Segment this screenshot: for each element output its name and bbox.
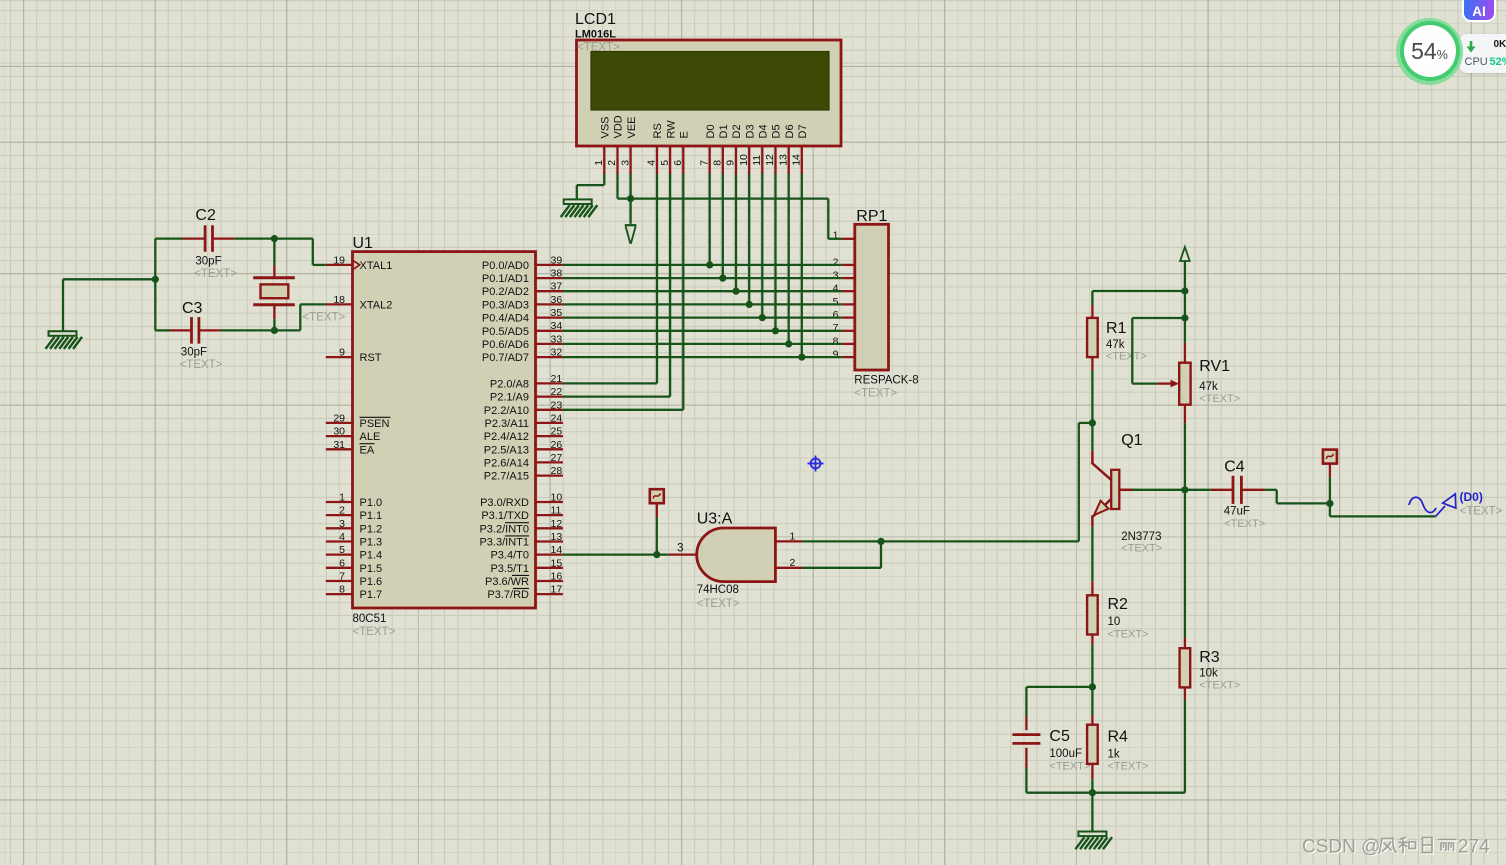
wire power to R1 bbox=[1092, 291, 1185, 305]
svg-text:10: 10 bbox=[1108, 616, 1121, 628]
label R2 bbox=[1108, 596, 1129, 613]
wire LCD D3 down bbox=[748, 174, 750, 304]
wire base bbox=[1133, 489, 1185, 491]
svg-text:R3: R3 bbox=[1199, 649, 1220, 666]
transistor Q1 bbox=[1092, 451, 1133, 527]
LCD display LCD1 body bbox=[577, 40, 842, 146]
svg-text:P1.1: P1.1 bbox=[360, 510, 383, 522]
svg-text:R1: R1 bbox=[1106, 320, 1127, 337]
U1 XTAL1 clock marker bbox=[354, 261, 360, 269]
svg-text:22: 22 bbox=[551, 386, 563, 398]
label R4 bbox=[1108, 729, 1129, 746]
svg-text:C2: C2 bbox=[195, 207, 216, 224]
svg-text:<TEXT>: <TEXT> bbox=[1460, 506, 1503, 518]
label 74HC08 bbox=[697, 584, 739, 596]
svg-text:D7: D7 bbox=[797, 124, 809, 138]
C5 leads bbox=[1025, 716, 1027, 768]
capacitor C2 bbox=[205, 225, 212, 252]
wire node to C5 bbox=[1026, 687, 1092, 716]
wire C5 down bbox=[1025, 768, 1027, 793]
svg-text:<TEXT>: <TEXT> bbox=[1199, 680, 1240, 692]
U3 pin 3 stub bbox=[669, 553, 698, 555]
svg-text:1k: 1k bbox=[1108, 749, 1120, 761]
wire R3 down bbox=[1184, 700, 1186, 793]
U1 left pin stubs bbox=[326, 265, 353, 594]
junction VEE-VDD bus bbox=[627, 195, 634, 202]
wire R1 to collector bbox=[1091, 371, 1093, 423]
svg-text:D3: D3 bbox=[744, 124, 756, 138]
Q1 collector wire bbox=[1091, 423, 1093, 451]
wire U1 P0.1 to RP1 pin 3 bbox=[563, 277, 842, 279]
svg-text:P1.3: P1.3 bbox=[360, 537, 383, 549]
svg-text:4: 4 bbox=[646, 160, 658, 166]
wire C2 right bbox=[234, 237, 313, 239]
svg-text:2: 2 bbox=[606, 160, 618, 166]
CPU stats panel bbox=[1459, 34, 1506, 74]
junction base node bbox=[1181, 486, 1188, 493]
capacitor C4 bbox=[1233, 476, 1241, 504]
probe2 stub bbox=[1329, 464, 1331, 478]
wire C2 left bbox=[155, 237, 183, 239]
RP1 pin numbers bbox=[833, 229, 839, 360]
wire U1 P0.3 to RP1 pin 5 bbox=[563, 303, 842, 305]
LCD1 pin numbers 1-14 bbox=[593, 154, 803, 166]
label R2 value bbox=[1108, 616, 1121, 628]
wire LCD D4 down bbox=[761, 174, 763, 318]
svg-text:D2: D2 bbox=[731, 124, 743, 138]
label U1 TEXT bbox=[353, 626, 396, 638]
wire R4 down bbox=[1091, 779, 1093, 793]
label D0 TEXT bbox=[1460, 506, 1503, 518]
junction gate input bbox=[653, 551, 660, 558]
junction power R1 bbox=[1181, 287, 1188, 294]
svg-text:3: 3 bbox=[833, 270, 839, 282]
wire LCD D5 down bbox=[774, 174, 776, 331]
svg-text:P3.0/RXD: P3.0/RXD bbox=[480, 497, 529, 509]
svg-text:C5: C5 bbox=[1049, 728, 1070, 745]
label R1 value bbox=[1106, 339, 1125, 351]
svg-text:VEE: VEE bbox=[626, 116, 638, 138]
svg-text:P2.2/A10: P2.2/A10 bbox=[484, 405, 529, 417]
wire left vertical bbox=[154, 239, 156, 331]
svg-text:11: 11 bbox=[751, 155, 763, 166]
LCD1 screen bbox=[591, 52, 829, 111]
svg-text:16: 16 bbox=[551, 571, 563, 583]
wire U1 P0.6 to RP1 pin 8 bbox=[563, 343, 842, 345]
svg-text:RP1: RP1 bbox=[856, 208, 887, 225]
label C4 bbox=[1224, 459, 1245, 476]
label C4 value bbox=[1224, 506, 1250, 518]
wire C3 right bbox=[221, 329, 275, 331]
svg-text:<TEXT>: <TEXT> bbox=[1108, 629, 1149, 641]
svg-text:CSDN @: CSDN @ bbox=[1302, 837, 1380, 858]
crystal top lead bbox=[273, 265, 275, 276]
U1 right pin stubs bbox=[536, 265, 563, 594]
svg-text:P1.6: P1.6 bbox=[360, 576, 383, 588]
RV1 wiper arrow bbox=[1157, 380, 1179, 388]
label C2 TEXT bbox=[194, 268, 237, 280]
svg-text:R4: R4 bbox=[1108, 729, 1129, 746]
label C2 bbox=[195, 207, 216, 224]
svg-text:4: 4 bbox=[339, 531, 345, 543]
wire crystal bottom bbox=[273, 319, 275, 330]
resistor R1 bbox=[1087, 305, 1098, 371]
wire U1 P0.5 to RP1 pin 7 bbox=[563, 330, 842, 332]
junction D5 bbox=[772, 327, 779, 334]
analog probe D0 bbox=[1409, 494, 1456, 517]
svg-text:P0.4/AD4: P0.4/AD4 bbox=[482, 313, 529, 325]
svg-text:<TEXT>: <TEXT> bbox=[854, 388, 897, 400]
label R3 bbox=[1199, 649, 1220, 666]
label LM016L bbox=[575, 29, 616, 41]
capacitor C5 bbox=[1012, 735, 1040, 744]
svg-text:33: 33 bbox=[551, 333, 563, 345]
wire base node to C4 bbox=[1185, 489, 1211, 491]
svg-text:10: 10 bbox=[551, 492, 563, 504]
junction D2 bbox=[732, 288, 739, 295]
junction D7 bbox=[798, 354, 805, 361]
svg-text:100uF: 100uF bbox=[1049, 748, 1082, 760]
svg-text:P2.6/A14: P2.6/A14 bbox=[484, 457, 529, 469]
svg-text:P2.3/A11: P2.3/A11 bbox=[485, 418, 529, 430]
C3 leads bbox=[170, 329, 221, 331]
svg-text:D0: D0 bbox=[705, 124, 717, 138]
resistor pack RP1 body bbox=[855, 224, 889, 370]
svg-text:P1.7: P1.7 bbox=[360, 589, 383, 601]
svg-text:RESPACK-8: RESPACK-8 bbox=[854, 375, 918, 387]
label C3 TEXT bbox=[180, 359, 223, 371]
wire to XTAL2 bbox=[274, 304, 325, 330]
svg-text:<TEXT>: <TEXT> bbox=[194, 268, 237, 280]
svg-text:14: 14 bbox=[551, 544, 563, 556]
svg-text:8: 8 bbox=[833, 335, 839, 347]
wire LCD RS to U1 P2.0 bbox=[563, 174, 657, 383]
svg-text:P2.4/A12: P2.4/A12 bbox=[484, 431, 529, 443]
svg-text:P3.7/RD: P3.7/RD bbox=[487, 589, 529, 601]
junction emitter node bbox=[1089, 683, 1096, 690]
svg-text:11: 11 bbox=[551, 505, 562, 517]
svg-text:RS: RS bbox=[652, 123, 664, 138]
svg-text:P3.4/T0: P3.4/T0 bbox=[490, 550, 529, 562]
svg-text:5: 5 bbox=[339, 544, 345, 556]
54% gauge bbox=[1396, 18, 1463, 85]
svg-text:28: 28 bbox=[551, 465, 563, 477]
svg-text:<TEXT>: <TEXT> bbox=[577, 42, 620, 54]
wire gate out 2 bbox=[802, 541, 881, 567]
label RV1 bbox=[1199, 358, 1230, 375]
svg-text:1: 1 bbox=[790, 531, 796, 543]
U3 pin 1 stub bbox=[775, 540, 802, 542]
svg-text:R2: R2 bbox=[1108, 596, 1129, 613]
svg-text:P3.1/TXD: P3.1/TXD bbox=[481, 510, 529, 522]
svg-text:17: 17 bbox=[551, 584, 563, 596]
svg-text:12: 12 bbox=[551, 518, 563, 530]
svg-text:ALE: ALE bbox=[360, 431, 381, 443]
resistor R2 bbox=[1087, 581, 1098, 644]
svg-text:15: 15 bbox=[551, 557, 563, 569]
label LCD1 bbox=[575, 11, 616, 28]
power terminal arrow bbox=[1180, 247, 1190, 261]
MCU U1 body bbox=[353, 252, 536, 608]
svg-text:C4: C4 bbox=[1224, 459, 1245, 476]
svg-text:VSS: VSS bbox=[600, 116, 612, 138]
svg-text:14: 14 bbox=[791, 154, 803, 166]
svg-text:P2.1/A9: P2.1/A9 bbox=[490, 392, 529, 404]
svg-text:U3:A: U3:A bbox=[697, 511, 733, 528]
wire VEE bbox=[629, 174, 631, 224]
label R4 TEXT bbox=[1108, 761, 1149, 773]
label R4 value bbox=[1108, 749, 1120, 761]
svg-text:LCD1: LCD1 bbox=[575, 11, 616, 28]
wire R2 to node bbox=[1091, 645, 1093, 687]
label C3 value bbox=[181, 347, 207, 359]
svg-text:29: 29 bbox=[333, 412, 345, 424]
svg-text:10: 10 bbox=[738, 154, 750, 166]
label RP1 TEXT bbox=[854, 388, 897, 400]
U3 pin 1 number bbox=[790, 531, 796, 543]
svg-text:RST: RST bbox=[360, 352, 382, 364]
wire emitter to R2 bbox=[1091, 527, 1093, 581]
svg-text:P3.3/INT1: P3.3/INT1 bbox=[479, 537, 529, 549]
svg-text:P0.1/AD1: P0.1/AD1 bbox=[482, 273, 529, 285]
svg-text:7: 7 bbox=[339, 571, 345, 583]
label U3 TEXT bbox=[697, 598, 740, 610]
svg-text:<TEXT>: <TEXT> bbox=[1108, 761, 1149, 773]
svg-text:<TEXT>: <TEXT> bbox=[1199, 393, 1240, 405]
junction D0 bbox=[706, 261, 713, 268]
svg-text:38: 38 bbox=[551, 268, 563, 280]
wire RV1 to base node bbox=[1184, 423, 1186, 490]
junction D1 bbox=[719, 275, 726, 282]
svg-text:<TEXT>: <TEXT> bbox=[1049, 761, 1090, 773]
svg-text:30pF: 30pF bbox=[181, 347, 207, 359]
potentiometer RV1 body bbox=[1179, 363, 1190, 405]
wire VSS to ground bbox=[577, 174, 605, 199]
svg-text:35: 35 bbox=[551, 307, 563, 319]
svg-text:27: 27 bbox=[551, 452, 563, 464]
svg-text:P2.0/A8: P2.0/A8 bbox=[490, 378, 529, 390]
terminal probe2 bbox=[1323, 450, 1337, 464]
U3 pin 3 number bbox=[677, 543, 683, 555]
label RP1 bbox=[856, 208, 887, 225]
svg-text:1: 1 bbox=[339, 492, 345, 504]
svg-text:23: 23 bbox=[551, 399, 563, 411]
label C3 bbox=[182, 300, 203, 317]
svg-text:LM016L: LM016L bbox=[575, 29, 616, 41]
AND gate U3:A body bbox=[697, 528, 776, 582]
wire P3.4 to gate bbox=[563, 553, 669, 555]
svg-text:P1.5: P1.5 bbox=[360, 563, 383, 575]
U1 right pin numbers bbox=[551, 254, 563, 595]
svg-text:RW: RW bbox=[665, 120, 677, 139]
U1 right pin names bbox=[479, 260, 529, 601]
svg-text:37: 37 bbox=[551, 281, 563, 293]
svg-text:3: 3 bbox=[339, 518, 345, 530]
svg-text:39: 39 bbox=[551, 254, 563, 266]
resistor R4 bbox=[1087, 715, 1098, 779]
svg-text:<TEXT>: <TEXT> bbox=[1121, 543, 1162, 555]
label C2 value bbox=[195, 256, 221, 268]
svg-text:P2.5/A13: P2.5/A13 bbox=[484, 444, 529, 456]
svg-text:30pF: 30pF bbox=[195, 256, 221, 268]
svg-text:2: 2 bbox=[339, 505, 345, 517]
svg-text:13: 13 bbox=[551, 531, 563, 543]
svg-text:26: 26 bbox=[551, 439, 563, 451]
U3 pin 2 stub bbox=[775, 567, 802, 569]
U3 pin 2 number bbox=[790, 557, 796, 569]
svg-text:P3.5/T1: P3.5/T1 bbox=[490, 563, 529, 575]
svg-text:D5: D5 bbox=[771, 124, 783, 138]
svg-text:1: 1 bbox=[593, 160, 605, 166]
ground left bbox=[46, 331, 83, 349]
probe1 stub bbox=[656, 503, 658, 517]
junction bottom bbox=[1089, 789, 1096, 796]
wire gate out 1 bbox=[802, 540, 881, 542]
svg-text:9: 9 bbox=[833, 349, 839, 361]
wire to ground left bbox=[63, 279, 155, 331]
wire U1 P0.0 to RP1 pin 2 bbox=[563, 264, 842, 266]
svg-text:3: 3 bbox=[619, 160, 631, 166]
svg-text:8: 8 bbox=[339, 584, 345, 596]
junction D3 bbox=[746, 301, 753, 308]
svg-text:P0.7/AD7: P0.7/AD7 bbox=[482, 352, 529, 364]
label R1 bbox=[1106, 320, 1127, 337]
LCD1 pin stubs 1-14 bbox=[604, 146, 802, 174]
label U1 bbox=[353, 235, 374, 252]
svg-text:7: 7 bbox=[698, 160, 710, 166]
wire U1 P0.2 to RP1 pin 4 bbox=[563, 290, 842, 292]
svg-text:XTAL1: XTAL1 bbox=[360, 260, 393, 272]
svg-text:4: 4 bbox=[833, 283, 839, 295]
AI button bbox=[1462, 0, 1496, 22]
label R3 value bbox=[1199, 668, 1218, 680]
RP1 pin stubs bbox=[842, 239, 855, 357]
svg-text:9: 9 bbox=[339, 347, 345, 359]
junction crystal top bbox=[271, 235, 278, 242]
ground under LCD bbox=[561, 199, 598, 217]
svg-text:<TEXT>: <TEXT> bbox=[180, 359, 223, 371]
svg-text:30: 30 bbox=[333, 426, 345, 438]
VEE terminal arrow bbox=[625, 225, 637, 244]
svg-text:47k: 47k bbox=[1199, 381, 1218, 393]
wire LCD D6 down bbox=[788, 174, 790, 344]
junction collector node bbox=[1089, 419, 1096, 426]
wire gate to collector node bbox=[881, 423, 1092, 542]
C2 leads bbox=[183, 237, 234, 239]
svg-text:P0.2/AD2: P0.2/AD2 bbox=[482, 286, 529, 298]
junction power RV1 bbox=[1181, 314, 1188, 321]
label C5 bbox=[1049, 728, 1070, 745]
wire LCD RW to U1 P2.1 bbox=[563, 174, 670, 397]
RV1 bottom lead bbox=[1184, 405, 1186, 424]
svg-text:6: 6 bbox=[339, 557, 345, 569]
svg-text:47uF: 47uF bbox=[1224, 506, 1250, 518]
C4 leads bbox=[1211, 489, 1265, 491]
svg-text:6: 6 bbox=[833, 309, 839, 321]
svg-text:34: 34 bbox=[551, 320, 563, 332]
wire base node to R3 bbox=[1184, 490, 1186, 638]
svg-text:80C51: 80C51 bbox=[353, 613, 387, 625]
junction crystal bottom bbox=[271, 327, 278, 334]
label R1 TEXT bbox=[1106, 351, 1147, 363]
svg-text:2N3773: 2N3773 bbox=[1121, 531, 1161, 543]
wire to signal probe bbox=[1330, 503, 1436, 516]
wire to probe1 bbox=[656, 517, 658, 554]
svg-text:25: 25 bbox=[551, 426, 563, 438]
label U3:A bbox=[697, 511, 733, 528]
svg-text:13: 13 bbox=[777, 154, 789, 166]
crystal bottom lead bbox=[273, 306, 275, 319]
label R2 TEXT bbox=[1108, 629, 1149, 641]
svg-text:18: 18 bbox=[333, 294, 345, 306]
svg-text:<TEXT>: <TEXT> bbox=[697, 598, 740, 610]
svg-text:2: 2 bbox=[790, 557, 796, 569]
label R3 TEXT bbox=[1199, 680, 1240, 692]
wire power down bbox=[1184, 261, 1186, 343]
label 80C51 bbox=[353, 613, 387, 625]
LCD1 pin names bbox=[600, 115, 810, 138]
svg-text:47k: 47k bbox=[1106, 339, 1125, 351]
svg-text:<TEXT>: <TEXT> bbox=[353, 626, 396, 638]
label Q1 TEXT bbox=[1121, 543, 1162, 555]
svg-text:P0.5/AD5: P0.5/AD5 bbox=[482, 326, 529, 338]
wire LCD D7 down bbox=[801, 174, 803, 357]
label RV1 value bbox=[1199, 381, 1218, 393]
wire LCD D0 down bbox=[709, 174, 711, 265]
svg-text:P1.2: P1.2 bbox=[360, 523, 383, 535]
label C5 TEXT bbox=[1049, 761, 1090, 773]
capacitor C3 bbox=[192, 317, 199, 344]
svg-text:10k: 10k bbox=[1199, 668, 1218, 680]
label RV1 TEXT bbox=[1199, 393, 1240, 405]
U1 left pin numbers bbox=[333, 254, 345, 595]
svg-text:21: 21 bbox=[551, 373, 563, 385]
label RESPACK-8 bbox=[854, 375, 918, 387]
svg-text:P1.0: P1.0 bbox=[360, 497, 383, 509]
wire node to R4 bbox=[1091, 687, 1093, 715]
svg-text:7: 7 bbox=[833, 322, 839, 334]
svg-text:19: 19 bbox=[333, 254, 345, 266]
terminal probe1 bbox=[650, 489, 664, 503]
svg-text:EA: EA bbox=[360, 444, 375, 456]
svg-text:D4: D4 bbox=[758, 124, 770, 138]
svg-text:32: 32 bbox=[551, 347, 563, 359]
svg-text:3: 3 bbox=[677, 543, 683, 555]
svg-text:PSEN: PSEN bbox=[360, 418, 390, 430]
junction left bbox=[152, 276, 159, 283]
U1 left pin names bbox=[360, 260, 393, 601]
svg-text:D6: D6 bbox=[784, 124, 796, 138]
svg-text:P3.2/INT0: P3.2/INT0 bbox=[479, 523, 529, 535]
svg-text:RV1: RV1 bbox=[1199, 358, 1230, 375]
wire U1 P0.4 to RP1 pin 6 bbox=[563, 316, 842, 318]
svg-text:P1.4: P1.4 bbox=[360, 550, 383, 562]
wire LCD D1 down bbox=[722, 174, 724, 278]
wire to bottom ground bbox=[1091, 793, 1093, 832]
svg-text:Q1: Q1 bbox=[1121, 432, 1142, 449]
wire probe2 down bbox=[1329, 477, 1331, 503]
wire LCD E to U1 P2.2 bbox=[563, 174, 683, 410]
wire bottom rail bbox=[1026, 792, 1185, 794]
label C5 value bbox=[1049, 748, 1082, 760]
svg-text:P0.0/AD0: P0.0/AD0 bbox=[482, 260, 529, 272]
svg-text:D1: D1 bbox=[718, 124, 730, 138]
wire crystal top bbox=[273, 239, 275, 266]
wire to XTAL1 bbox=[313, 239, 326, 265]
origin crosshair bbox=[808, 456, 824, 472]
crystal X1 bbox=[253, 278, 295, 305]
svg-text:VDD: VDD bbox=[613, 115, 625, 138]
